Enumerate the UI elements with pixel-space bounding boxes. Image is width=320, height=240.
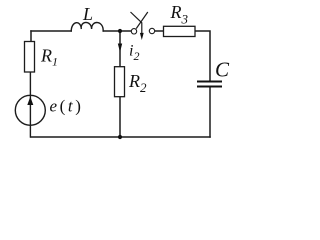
switch contact right [149,28,154,33]
switch blade [136,12,148,29]
inductor L [71,22,103,31]
bottom wire [31,136,210,138]
wire inductor to switch [103,30,131,32]
left wire down from corner [30,31,32,42]
wire R2 to bottom [119,97,121,137]
wire R1 to source, through source circle [29,72,31,137]
source e(t) [15,95,45,125]
svg-text:C: C [215,58,230,82]
wire switch to R3 [155,30,164,32]
current arrow i2 [118,44,122,53]
svg-text:e(t): e(t) [50,96,84,115]
source e(t) arrow [27,97,33,105]
wire top-left horizontal [31,30,71,32]
resistor R1 [25,42,35,73]
switch closing arrow [131,12,144,40]
node junction top [118,29,122,33]
wire R3 to right corner and down [195,31,210,81]
capacitor C [197,81,222,88]
resistor R3 [164,26,196,36]
node junction bottom [118,135,122,139]
resistor R2 [115,67,125,97]
middle wire junction to R2 [119,31,121,67]
svg-text:L: L [82,4,93,24]
wire capacitor to bottom [209,88,211,138]
switch contact left [131,29,136,34]
